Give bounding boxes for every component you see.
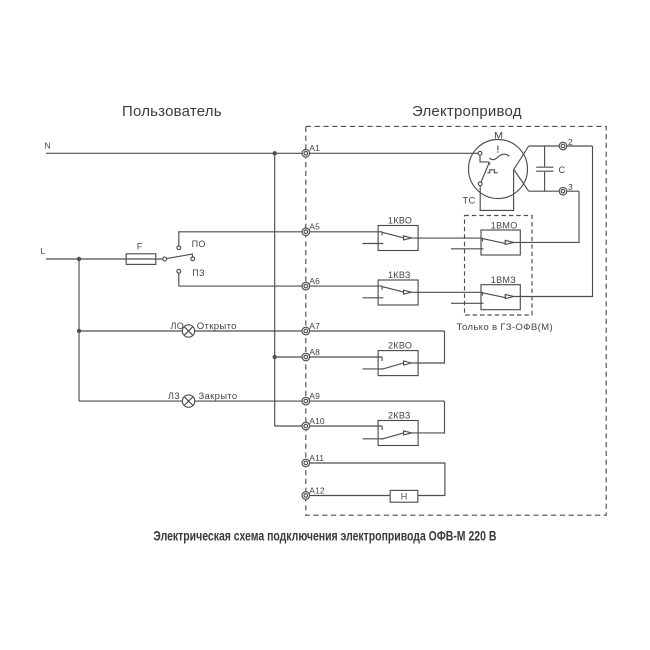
terminal A8 (302, 353, 310, 361)
wire 2KVZ output loop to A9 (412, 401, 445, 433)
switch blade tip circle (191, 257, 195, 261)
motor TC blade (481, 162, 489, 182)
svg-text:A8: A8 (309, 347, 320, 357)
svg-text:A12: A12 (309, 485, 325, 495)
relay contact 2KVZ (363, 421, 419, 446)
terminal A9 (302, 397, 310, 405)
terminal A5 (302, 228, 310, 236)
svg-text:1ВМО: 1ВМО (491, 220, 518, 230)
lamp LZ (182, 395, 194, 407)
wire A12 row (306, 495, 390, 497)
svg-text:1КВО: 1КВО (388, 216, 412, 226)
svg-text:ЛО: ЛО (171, 321, 185, 331)
svg-text:3: 3 (568, 182, 573, 192)
inner dashed box only in GZ-OFV(M) (465, 216, 533, 316)
wire L row (46, 258, 163, 260)
terminal A7 (302, 327, 310, 335)
switch pivot (163, 257, 167, 261)
terminal 2 (559, 142, 567, 150)
terminal A6 (302, 282, 310, 290)
svg-text:A10: A10 (309, 416, 325, 426)
svg-text:A9: A9 (309, 391, 320, 401)
motor M circle (469, 140, 528, 199)
wire 2KVO output loop to A7 (412, 331, 445, 363)
wire left vertical from L junction (78, 259, 80, 401)
svg-text:2КВЗ: 2КВЗ (388, 411, 411, 421)
terminal A12 (302, 492, 310, 500)
relay contact 2KVO (363, 351, 419, 376)
wire A6 row from PZ to relay 1KVZ (179, 285, 382, 287)
junction dot N (273, 151, 277, 155)
svg-text:Пользователь: Пользователь (122, 103, 222, 120)
actuator enclosure dashed box (306, 126, 606, 515)
relay contact 1KVZ (363, 280, 419, 305)
node PO contact vertical to A5 row (178, 232, 181, 246)
motor winding chevron (514, 146, 529, 191)
svg-text:F: F (137, 241, 143, 251)
switch blade (167, 254, 193, 259)
motor thermal wave (489, 154, 509, 160)
svg-text:Электропривод: Электропривод (412, 103, 522, 120)
junction dot LO row (77, 329, 81, 333)
svg-text:2КВО: 2КВО (388, 341, 412, 351)
svg-text:Закрыто: Закрыто (199, 391, 238, 401)
junction dot A8 row (273, 355, 277, 359)
svg-text:A1: A1 (309, 143, 320, 153)
wire A5 row from PO to relay 1KVO (179, 231, 382, 233)
wire A8 row (275, 356, 382, 358)
wire A11 loop (306, 463, 445, 496)
switch contact PZ (177, 269, 181, 273)
terminal A11 (302, 459, 310, 467)
terminal 3 (559, 187, 567, 195)
wire winding to terminal 2 (529, 145, 593, 147)
motor terminal contact bottom (478, 182, 482, 186)
svg-text:Открыто: Открыто (197, 321, 237, 331)
svg-text:С: С (559, 165, 566, 175)
node PZ contact vertical to A6 row (178, 273, 180, 286)
svg-text:Н: Н (401, 491, 408, 501)
motor terminal contact top (478, 151, 482, 155)
svg-text:A7: A7 (309, 321, 320, 331)
junction dot L (77, 257, 81, 261)
svg-text:Только в ГЗ-ОФВ(М): Только в ГЗ-ОФВ(М) (457, 322, 554, 332)
wire 1KVZ output to 1VMZ (412, 291, 483, 293)
svg-text:ЛЗ: ЛЗ (168, 391, 180, 401)
svg-text:N: N (45, 141, 51, 151)
svg-text:1ВМЗ: 1ВМЗ (491, 275, 516, 285)
motor step symbol (488, 170, 498, 173)
relay contact 1VMZ (451, 285, 520, 310)
relay contact 1KVO (363, 226, 419, 251)
wire A10 row (275, 425, 382, 427)
svg-text:L: L (41, 246, 46, 256)
wire winding to terminal 3 (529, 190, 579, 192)
wire 1KVO output to 1VMO (412, 237, 483, 239)
wire 1VMO output loop to terminal 3 (514, 191, 579, 242)
wire 1VMZ output loop to terminal 2 (514, 146, 593, 297)
svg-text:A5: A5 (309, 222, 320, 232)
wire main vertical from N junction (274, 153, 276, 426)
capacitor C (544, 146, 546, 167)
svg-text:1КВЗ: 1КВЗ (388, 270, 411, 280)
wire lamp LZ row to A9 (79, 400, 445, 402)
wire lamp LO row to A7 (79, 330, 445, 332)
terminal A10 (302, 422, 310, 430)
terminal A1 (302, 150, 310, 158)
svg-text:ТС: ТС (463, 196, 476, 206)
svg-text:2: 2 (568, 137, 573, 147)
heater H (390, 490, 418, 502)
svg-text:A11: A11 (309, 453, 324, 463)
svg-text:ПО: ПО (192, 239, 206, 249)
wire N row (46, 152, 478, 154)
motor internal L path (480, 155, 489, 162)
svg-text:A6: A6 (309, 276, 320, 286)
TC loop (480, 170, 513, 211)
relay contact 1VMO (451, 230, 520, 255)
motor label 1 with arrow (497, 146, 499, 151)
svg-text:ПЗ: ПЗ (192, 268, 205, 278)
fuse F (126, 254, 156, 265)
lamp LO (182, 325, 194, 337)
switch contact PO (177, 246, 181, 250)
svg-text:М: М (494, 130, 504, 140)
svg-text:Электрическая схема подключени: Электрическая схема подключения электроп… (153, 528, 496, 543)
